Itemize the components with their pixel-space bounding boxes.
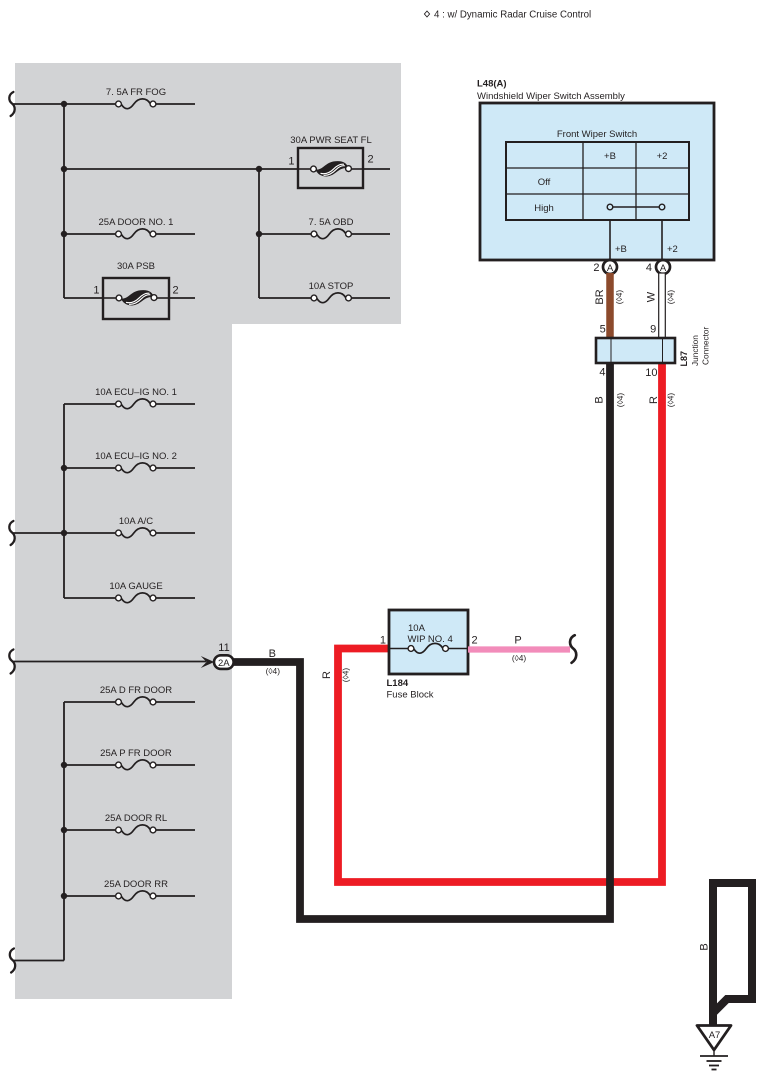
junction dot (259,169) — [256, 166, 262, 172]
wire B (black) 2A to L87 — [234, 363, 611, 919]
svg-text:9: 9 — [650, 324, 656, 336]
wire break + feed (bottom) — [10, 949, 15, 973]
svg-text:2: 2 — [472, 635, 478, 647]
svg-text:30A PWR SEAT FL: 30A PWR SEAT FL — [290, 135, 371, 146]
svg-text:(◊4): (◊4) — [665, 290, 675, 305]
wire: bus A vertical x=64 — [63, 104, 65, 298]
svg-text:(◊4): (◊4) — [341, 668, 351, 683]
svg-text:L87: L87 — [679, 351, 689, 367]
wire: bus C vertical x=64 (door group) — [63, 702, 65, 961]
label BR ((dia)4) — [594, 289, 624, 304]
svg-text:25A P FR DOOR: 25A P FR DOOR — [100, 748, 172, 759]
wire: +2 internal — [661, 220, 663, 260]
junction connector L87 — [596, 338, 675, 363]
component L48(A) windshield wiper switch assembly — [477, 79, 714, 261]
switch contact (High row) — [607, 204, 665, 210]
svg-text:10: 10 — [645, 367, 657, 379]
svg-text:W: W — [645, 291, 657, 302]
wire break top-left — [9, 92, 14, 116]
wire P (pink) — [468, 646, 570, 652]
svg-text:1: 1 — [93, 285, 99, 297]
svg-text:1: 1 — [288, 156, 294, 168]
svg-text:2A: 2A — [218, 658, 230, 669]
svg-text:11: 11 — [218, 642, 229, 654]
ground A7 — [697, 1026, 731, 1070]
svg-text:Front Wiper Switch: Front Wiper Switch — [557, 129, 637, 140]
junction dot (64,533) — [61, 530, 67, 536]
wire: +B internal — [609, 220, 611, 260]
wire: feed line y=104 — [13, 103, 195, 105]
label W ((dia)4) — [645, 290, 675, 305]
svg-text:25A DOOR RR: 25A DOOR RR — [104, 879, 168, 890]
pin 4 (A) — [646, 260, 670, 274]
fuse 7.5A FR FOG — [106, 87, 166, 109]
wire BR (brown) — [606, 273, 614, 339]
wire B loop to ground — [713, 883, 752, 1025]
junction dot (64,468) — [61, 465, 67, 471]
wire: branch x=259 vertical — [258, 169, 260, 298]
svg-text:L48(A): L48(A) — [477, 79, 507, 90]
svg-text:A7: A7 — [709, 1030, 721, 1041]
svg-text:30A PSB: 30A PSB — [117, 261, 155, 272]
svg-text:Junction: Junction — [690, 335, 700, 366]
svg-text:Off: Off — [538, 177, 551, 188]
label L184 Fuse Block — [387, 678, 434, 701]
svg-text:B: B — [698, 943, 710, 950]
wire break + feed (A/C row) — [9, 521, 14, 545]
junction dot (64,830) — [61, 827, 67, 833]
svg-text:(◊4): (◊4) — [615, 393, 625, 408]
wire R (red) L184 to L87 — [338, 363, 662, 882]
fuse block L184 — [380, 610, 478, 674]
fuse 10A GAUGE — [64, 581, 195, 603]
svg-text:WIP NO. 4: WIP NO. 4 — [408, 634, 453, 645]
fuse 25A DOOR RR — [64, 879, 195, 901]
junction dot (259,234) — [256, 231, 262, 237]
junction dot (64,169) — [61, 166, 67, 172]
junction dot (64,234) — [61, 231, 67, 237]
wire break + feed (2A row) — [9, 650, 14, 674]
svg-text:10A A/C: 10A A/C — [119, 516, 153, 527]
svg-text:1: 1 — [380, 635, 386, 647]
svg-text:+2: +2 — [657, 151, 668, 162]
wire: bus B vertical x=64 (ECU-IG group) — [63, 404, 65, 598]
svg-text:Windshield Wiper Switch Assemb: Windshield Wiper Switch Assembly — [477, 91, 625, 102]
fuse 25A DOOR RL — [64, 813, 195, 835]
svg-text:4: 4 — [599, 367, 605, 379]
svg-text:10A GAUGE: 10A GAUGE — [109, 581, 162, 592]
svg-text:7. 5A OBD: 7. 5A OBD — [309, 217, 354, 228]
wire W (white) — [659, 273, 666, 339]
fuse 25A P FR DOOR — [64, 748, 195, 770]
svg-text:A: A — [607, 263, 614, 274]
note: w/ Dynamic Radar Cruise Control — [424, 10, 591, 21]
fuse 25A DOOR NO. 1 — [64, 217, 195, 239]
svg-text:2: 2 — [173, 285, 179, 297]
label R ((dia)4) at x=338 — [321, 668, 351, 683]
svg-text:7. 5A FR FOG: 7. 5A FR FOG — [106, 87, 166, 98]
fusible link 30A PSB — [64, 261, 195, 319]
label B ((dia)4) near 2A — [266, 648, 281, 676]
svg-text:25A DOOR RL: 25A DOOR RL — [105, 813, 167, 824]
junction dot (64,896) — [61, 893, 67, 899]
svg-text:Connector: Connector — [701, 326, 711, 365]
svg-text:25A DOOR NO. 1: 25A DOOR NO. 1 — [99, 217, 174, 228]
fuse 10A STOP — [259, 281, 390, 303]
fuse 10A ECU-IG NO. 1 — [64, 387, 195, 409]
svg-text:(◊4): (◊4) — [266, 666, 281, 676]
svg-text:25A D FR DOOR: 25A D FR DOOR — [100, 685, 172, 696]
svg-text:B: B — [594, 396, 606, 403]
label R ((dia)4) at x=661 — [648, 393, 676, 408]
label B ((dia)4) at x=612 — [594, 393, 625, 408]
label L87 Junction Connector — [679, 326, 711, 366]
svg-text:+B: +B — [615, 244, 627, 255]
svg-text:B: B — [269, 648, 276, 660]
wire: row y=169 to PWR SEAT FL — [64, 168, 298, 170]
fuse block panel (gray background) — [15, 63, 401, 999]
svg-text:R: R — [648, 396, 660, 404]
svg-text:10A: 10A — [408, 623, 426, 634]
svg-text:4: 4 — [646, 262, 652, 274]
svg-text:+2: +2 — [667, 244, 678, 255]
junction dot (64,104) — [61, 101, 67, 107]
svg-text:P: P — [514, 635, 521, 647]
svg-text:Fuse Block: Fuse Block — [387, 690, 434, 701]
svg-text:A: A — [660, 263, 667, 274]
svg-text:High: High — [534, 203, 554, 214]
svg-text:2: 2 — [368, 154, 374, 166]
svg-text:10A ECU–IG NO. 1: 10A ECU–IG NO. 1 — [95, 387, 177, 398]
junction dot (64,765) — [61, 762, 67, 768]
label P ((dia)4) — [512, 635, 527, 664]
svg-text:(◊4): (◊4) — [512, 653, 527, 663]
svg-text:5: 5 — [600, 324, 606, 336]
svg-text:4 : w/ Dynamic Radar Cruise Co: 4 : w/ Dynamic Radar Cruise Control — [434, 10, 591, 21]
fuse 10A A/C — [64, 516, 195, 538]
svg-text:10A ECU–IG NO. 2: 10A ECU–IG NO. 2 — [95, 451, 177, 462]
fuse 25A D FR DOOR — [64, 685, 195, 707]
svg-text:R: R — [321, 671, 333, 679]
svg-text:10A STOP: 10A STOP — [309, 281, 354, 292]
wire break (pink wire) — [570, 635, 576, 663]
front wiper switch table — [506, 129, 689, 220]
fusible link 30A PWR SEAT FL — [288, 135, 390, 188]
svg-text:(◊4): (◊4) — [614, 290, 624, 305]
svg-text:L184: L184 — [387, 678, 409, 689]
svg-text:BR: BR — [594, 289, 606, 304]
svg-text:(◊4): (◊4) — [666, 393, 676, 408]
svg-text:+B: +B — [604, 151, 616, 162]
svg-text:2: 2 — [593, 262, 599, 274]
pin 2 (A) — [593, 260, 617, 274]
connector 2A pin 11 — [201, 642, 234, 669]
fuse 10A ECU-IG NO. 2 — [64, 451, 195, 473]
fuse 7.5A OBD — [259, 217, 390, 239]
